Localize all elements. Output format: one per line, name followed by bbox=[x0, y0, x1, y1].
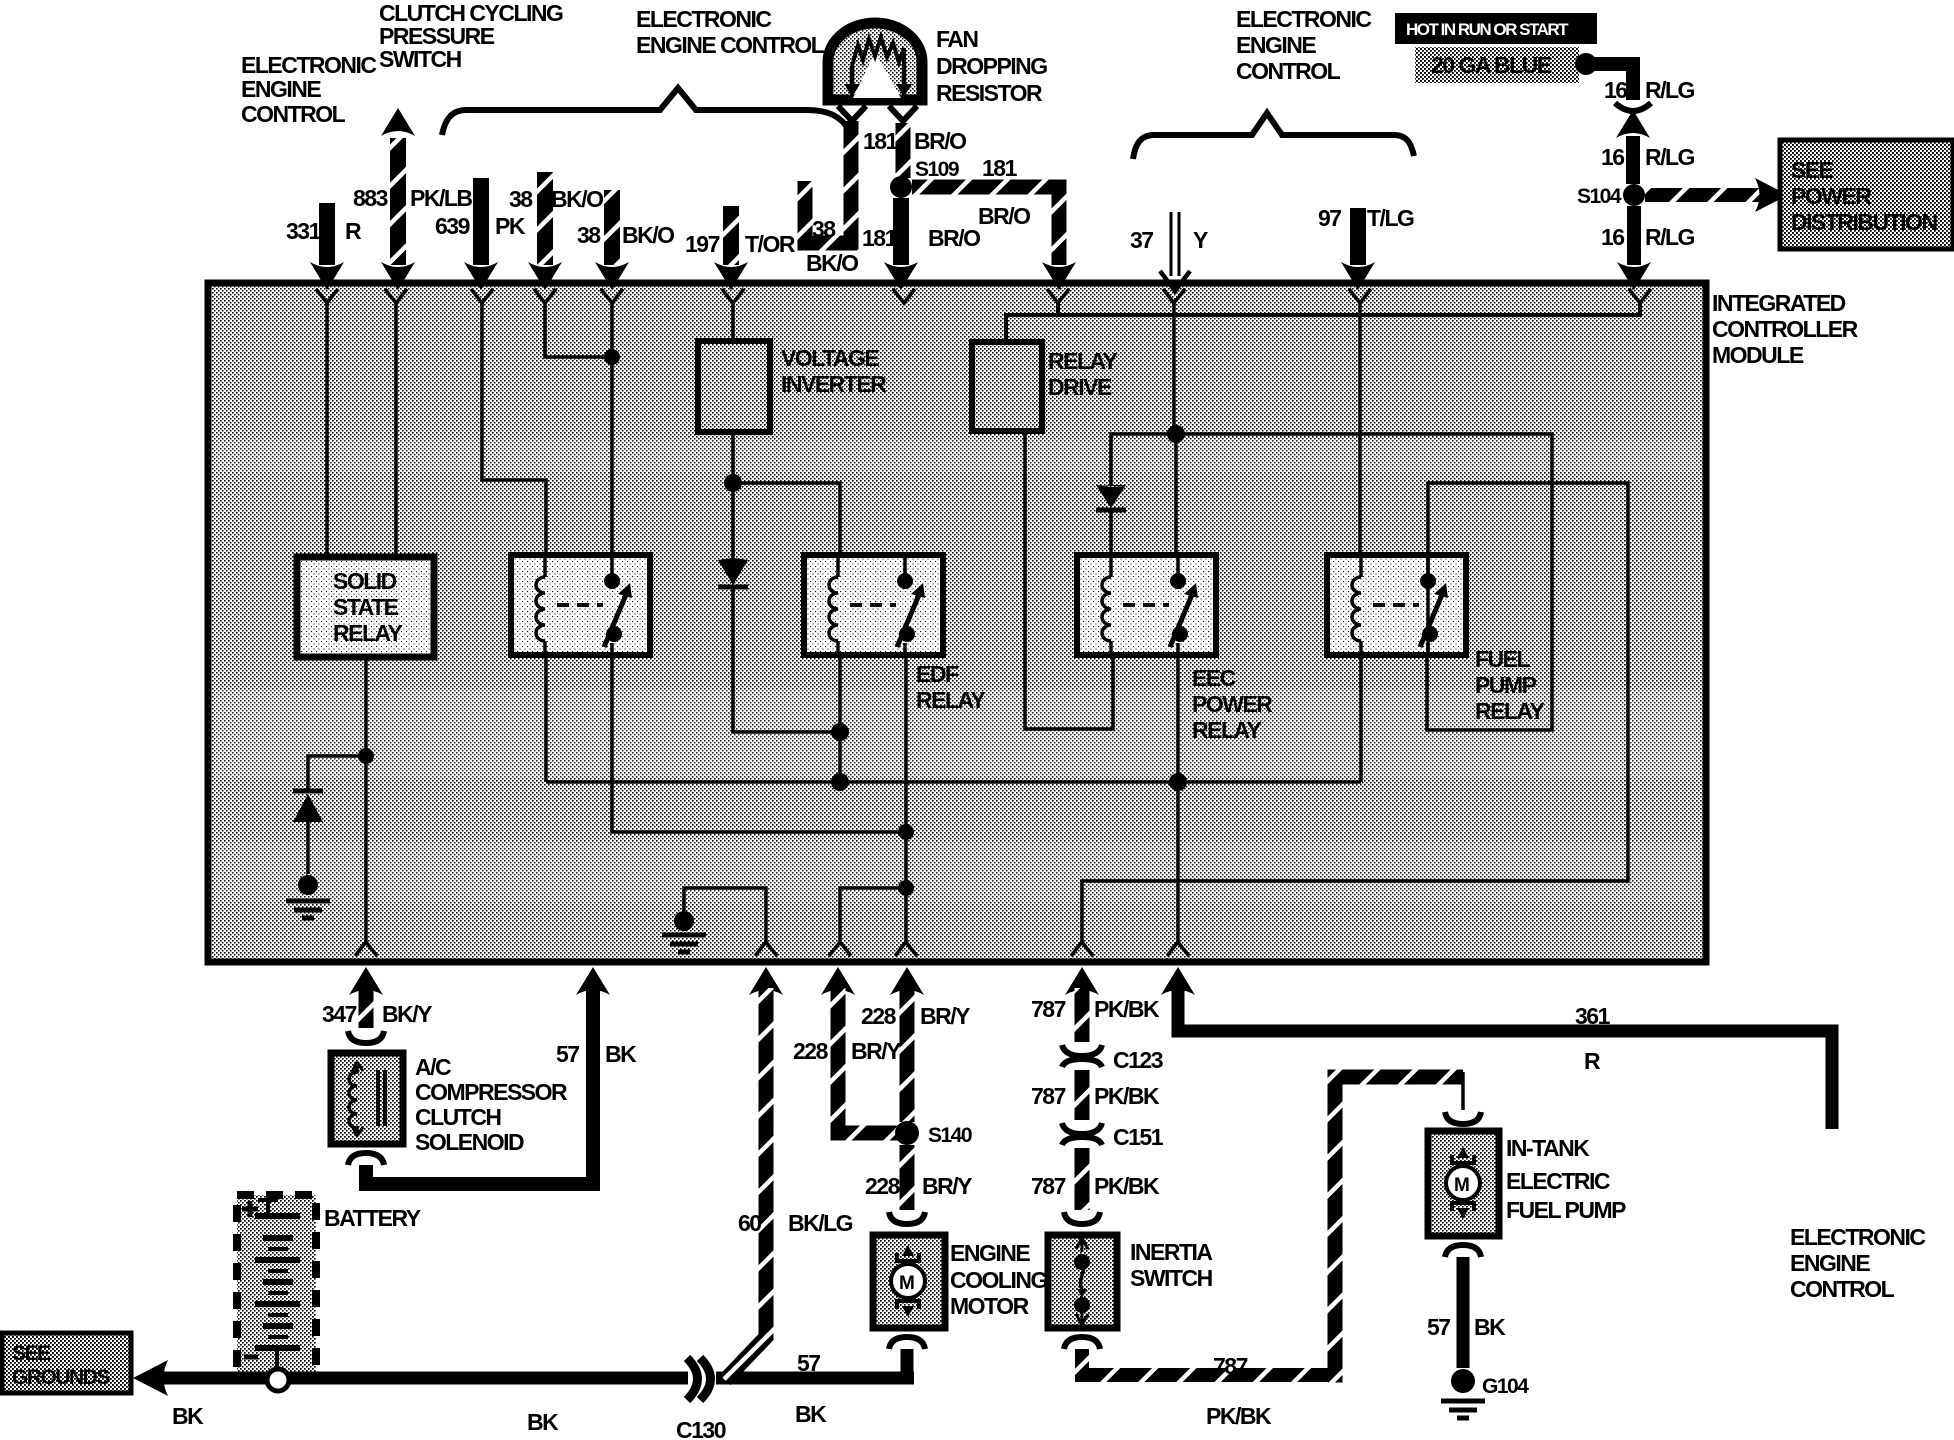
svg-text:SEE: SEE bbox=[12, 1342, 51, 1365]
svg-text:60: 60 bbox=[738, 1210, 761, 1236]
label box HOT IN RUN OR START bbox=[1395, 13, 1597, 44]
svg-text:97: 97 bbox=[1318, 205, 1341, 231]
svg-text:RELAY: RELAY bbox=[1192, 717, 1261, 743]
svg-text:BK: BK bbox=[605, 1041, 637, 1067]
connector cup motor bottom bbox=[889, 1337, 925, 1349]
wire 37 to EEC switch bbox=[1174, 434, 1178, 555]
wire FP switch top to 787 exit bbox=[1082, 483, 1628, 941]
wire 37 Y (double thin) bbox=[1171, 212, 1179, 276]
wire 347 BK/Y bbox=[349, 967, 383, 995]
node 37 branch bbox=[1167, 425, 1185, 443]
svg-text:STATE: STATE bbox=[333, 594, 399, 620]
svg-text:BK/O: BK/O bbox=[806, 250, 858, 276]
svg-text:RELAY: RELAY bbox=[333, 620, 402, 646]
connector cup A/C top bbox=[348, 1031, 384, 1043]
connector C151 bbox=[1062, 1123, 1102, 1145]
svg-text:38: 38 bbox=[577, 222, 601, 248]
svg-text:MODULE: MODULE bbox=[1712, 342, 1804, 368]
svg-text:ENGINE CONTROL: ENGINE CONTROL bbox=[636, 32, 825, 58]
wire internal ground branch bbox=[684, 888, 766, 941]
svg-text:228: 228 bbox=[865, 1173, 901, 1199]
svg-text:16: 16 bbox=[1601, 144, 1624, 170]
wire ssr output bbox=[364, 657, 368, 941]
svg-text:DROPPING: DROPPING bbox=[936, 53, 1047, 79]
svg-text:331: 331 bbox=[286, 218, 322, 244]
svg-text:S109: S109 bbox=[915, 158, 959, 181]
svg-text:FAN: FAN bbox=[936, 26, 978, 52]
wire 181 BR/O S109 down bbox=[893, 198, 909, 265]
svg-text:347: 347 bbox=[322, 1001, 357, 1027]
svg-text:FUEL: FUEL bbox=[1475, 646, 1531, 672]
svg-text:PK/BK: PK/BK bbox=[1206, 1403, 1272, 1429]
svg-text:BR/O: BR/O bbox=[914, 128, 966, 154]
svg-text:BK/LG: BK/LG bbox=[788, 1210, 853, 1236]
svg-text:ELECTRIC: ELECTRIC bbox=[1506, 1168, 1610, 1194]
svg-text:BATTERY: BATTERY bbox=[324, 1205, 421, 1231]
wire FP coil to rail bbox=[1359, 655, 1363, 782]
svg-text:ELECTRONIC: ELECTRONIC bbox=[1236, 6, 1371, 32]
wire 57 BK cooling motor to C130 bbox=[716, 1372, 914, 1385]
node EDF coil rail junction bbox=[831, 773, 849, 791]
wire 228 BR/Y S140 to motor bbox=[900, 1145, 915, 1210]
wire EEC switch down to exit bbox=[1176, 655, 1180, 941]
wire A/C relay switch down jog bbox=[612, 655, 906, 832]
wire 787 riser to fuel pump bbox=[1328, 1077, 1463, 1375]
svg-text:POWER: POWER bbox=[1192, 691, 1273, 717]
svg-text:SWITCH: SWITCH bbox=[1130, 1265, 1213, 1291]
wire 883 entry to solid state relay bbox=[394, 303, 398, 557]
svg-text:PK/BK: PK/BK bbox=[1094, 996, 1160, 1022]
node G104 bbox=[1451, 1369, 1475, 1393]
wire 228 BR/Y (right) bbox=[890, 967, 924, 995]
label box SEE GROUNDS bbox=[2, 1333, 131, 1393]
svg-text:Y: Y bbox=[1193, 227, 1208, 253]
integrated controller module box bbox=[208, 283, 1706, 962]
svg-text:G104: G104 bbox=[1482, 1375, 1529, 1398]
svg-text:C130: C130 bbox=[676, 1417, 726, 1440]
svg-text:SOLID: SOLID bbox=[333, 568, 397, 594]
svg-text:BK/O: BK/O bbox=[551, 186, 603, 212]
svg-text:M: M bbox=[899, 1273, 914, 1294]
svg-text:POWER: POWER bbox=[1791, 183, 1872, 209]
connector cup fuel pump top bbox=[1445, 1112, 1481, 1124]
wire 97 entry to FP coil bbox=[1358, 303, 1362, 555]
wire to EDF clamp diode bbox=[731, 483, 735, 558]
svg-text:R/LG: R/LG bbox=[1645, 144, 1695, 170]
connector C130 bbox=[687, 1358, 698, 1400]
wire 787 PK/BK inertia out bbox=[1082, 1349, 1335, 1375]
node ssr branch bbox=[358, 748, 374, 764]
wire BK battery to grounds bbox=[163, 1372, 688, 1385]
wire 197 entry to voltage inverter bbox=[731, 303, 735, 341]
svg-text:EDF: EDF bbox=[916, 661, 959, 687]
wire hot feed to connector bbox=[1586, 64, 1633, 100]
wire EDF coil to rail bbox=[838, 655, 842, 782]
svg-text:BR/O: BR/O bbox=[928, 225, 980, 251]
svg-text:T/LG: T/LG bbox=[1367, 205, 1414, 231]
svg-text:ELECTRONIC: ELECTRONIC bbox=[636, 6, 771, 32]
svg-text:INVERTER: INVERTER bbox=[781, 371, 887, 397]
svg-text:BK/Y: BK/Y bbox=[382, 1001, 432, 1027]
node inverter branch bbox=[724, 474, 742, 492]
svg-text:787: 787 bbox=[1213, 1353, 1248, 1379]
diode CR2 (EDF coil clamp) bbox=[718, 558, 748, 560]
connector cup inertia top bbox=[1064, 1212, 1100, 1224]
svg-text:BR/O: BR/O bbox=[978, 203, 1030, 229]
svg-text:R/LG: R/LG bbox=[1645, 77, 1695, 103]
connector cup inertia bottom bbox=[1064, 1337, 1100, 1349]
svg-text:787: 787 bbox=[1031, 1173, 1066, 1199]
node battery terminal bbox=[267, 1369, 289, 1391]
battery bbox=[237, 1195, 316, 1376]
svg-text:16: 16 bbox=[1604, 77, 1627, 103]
svg-text:RELAY: RELAY bbox=[1475, 698, 1544, 724]
svg-text:T/OR: T/OR bbox=[745, 231, 796, 257]
wire A/C relay coil to common rail bbox=[544, 655, 548, 782]
node EDF switch exit junction bbox=[898, 880, 914, 896]
svg-text:RESISTOR: RESISTOR bbox=[936, 80, 1043, 106]
wire S104 to power distribution bbox=[1645, 188, 1760, 202]
svg-text:883: 883 bbox=[353, 185, 388, 211]
svg-text:ENGINE: ENGINE bbox=[241, 76, 321, 102]
wire to EDF coil top bbox=[733, 483, 840, 555]
svg-text:DRIVE: DRIVE bbox=[1048, 374, 1112, 400]
wire 787 PK/BK lower bbox=[1075, 1148, 1090, 1210]
wire 228 BR/Y (left) bbox=[821, 967, 855, 995]
svg-text:CLUTCH: CLUTCH bbox=[415, 1104, 501, 1130]
relay K1 (A/C clutch relay) bbox=[511, 555, 650, 655]
svg-text:PUMP: PUMP bbox=[1475, 672, 1537, 698]
svg-text:PK/BK: PK/BK bbox=[1094, 1083, 1160, 1109]
svg-text:181: 181 bbox=[863, 128, 899, 154]
node S140 bbox=[895, 1121, 919, 1145]
node EDF coil diode junction bbox=[831, 723, 849, 741]
svg-text:CONTROLLER: CONTROLLER bbox=[1712, 316, 1859, 342]
node 38 junction bbox=[604, 349, 620, 365]
wire relay drive to EEC coil bbox=[1025, 431, 1113, 729]
connector cup motor top bbox=[889, 1212, 925, 1224]
svg-text:SWITCH: SWITCH bbox=[379, 46, 462, 72]
wire 57 BK solenoid loop bbox=[366, 985, 593, 1184]
svg-text:BR/Y: BR/Y bbox=[851, 1038, 901, 1064]
wire 639 entry jog to A/C relay coil bbox=[482, 303, 546, 555]
wire 37 branch right long bbox=[1176, 434, 1552, 730]
relay K3 EEC power relay bbox=[1077, 555, 1216, 655]
svg-text:228: 228 bbox=[793, 1038, 829, 1064]
wire 331 entry to solid state relay bbox=[325, 303, 329, 557]
label box SEE POWER DISTRIBUTION bbox=[1780, 140, 1953, 249]
svg-text:PK/BK: PK/BK bbox=[1094, 1173, 1160, 1199]
wire 57 BK fuel pump ground bbox=[1457, 1257, 1470, 1368]
wire 38 entry to A/C relay switch bbox=[610, 303, 614, 555]
svg-text:BK/O: BK/O bbox=[622, 222, 674, 248]
fan dropping resistor dome bbox=[828, 23, 922, 100]
engine cooling motor bbox=[873, 1235, 945, 1328]
wire 37 branch left to diode bbox=[1111, 434, 1176, 485]
relay K2 EDF relay bbox=[804, 555, 943, 655]
node internal ground dot bbox=[674, 911, 694, 931]
node ground dot bbox=[298, 875, 318, 895]
ground symbol (left) bbox=[286, 901, 330, 918]
svg-text:38: 38 bbox=[509, 186, 533, 212]
wire 16 R/LG S104 down bbox=[1627, 206, 1641, 265]
svg-text:16: 16 bbox=[1601, 224, 1624, 250]
svg-text:181: 181 bbox=[862, 225, 898, 251]
svg-text:HOT IN RUN OR START: HOT IN RUN OR START bbox=[1406, 20, 1569, 39]
svg-text:PK/LB: PK/LB bbox=[410, 185, 472, 211]
wire EDF switch lower run bbox=[904, 655, 908, 888]
svg-text:PK: PK bbox=[495, 213, 526, 239]
svg-text:BK: BK bbox=[527, 1409, 559, 1435]
svg-text:57: 57 bbox=[1427, 1314, 1450, 1340]
wire inverter output bbox=[731, 432, 735, 483]
svg-text:EEC: EEC bbox=[1192, 665, 1236, 691]
wire 197 T/OR bbox=[723, 206, 739, 265]
svg-text:ENGINE: ENGINE bbox=[1236, 32, 1316, 58]
svg-text:R: R bbox=[345, 218, 362, 244]
svg-text:BK: BK bbox=[172, 1403, 204, 1429]
wire stub 181 entry to bus bbox=[1056, 303, 1060, 317]
svg-text:BK: BK bbox=[1474, 1314, 1506, 1340]
connector cup fuel pump bottom bbox=[1445, 1245, 1481, 1257]
node S109 bbox=[890, 176, 912, 198]
svg-text:IN-TANK: IN-TANK bbox=[1506, 1135, 1590, 1161]
svg-text:197: 197 bbox=[685, 231, 720, 257]
brace mid EEC bbox=[442, 88, 851, 135]
svg-text:787: 787 bbox=[1031, 996, 1066, 1022]
wire bus 16R/LG to relay drive bbox=[1006, 303, 1640, 342]
svg-text:INTEGRATED: INTEGRATED bbox=[1712, 290, 1846, 316]
wire 60 BK/LG bbox=[749, 967, 783, 995]
svg-text:S140: S140 bbox=[928, 1124, 972, 1147]
wire common rail bbox=[546, 780, 1361, 784]
solid state relay U1 bbox=[297, 557, 434, 657]
module scan streaks bbox=[215, 440, 1699, 472]
voltage inverter box bbox=[698, 341, 770, 432]
svg-text:ELECTRONIC: ELECTRONIC bbox=[241, 52, 376, 78]
wire 38 BK/O (first) bbox=[537, 172, 553, 265]
svg-text:R/LG: R/LG bbox=[1645, 224, 1695, 250]
svg-text:FUEL PUMP: FUEL PUMP bbox=[1506, 1197, 1626, 1223]
svg-text:VOLTAGE: VOLTAGE bbox=[781, 345, 879, 371]
svg-text:C151: C151 bbox=[1113, 1124, 1164, 1150]
svg-text:57: 57 bbox=[556, 1041, 579, 1067]
connector cup A/C bottom bbox=[348, 1153, 384, 1165]
svg-text:GROUNDS: GROUNDS bbox=[12, 1366, 110, 1389]
wire 37 entry down bbox=[1172, 303, 1176, 434]
inertia switch bbox=[1048, 1235, 1117, 1328]
svg-text:639: 639 bbox=[435, 213, 470, 239]
wire 787 PK/BK mid bbox=[1075, 1070, 1090, 1120]
node S104 bbox=[1623, 184, 1645, 206]
relay K4 fuel pump relay bbox=[1327, 555, 1466, 655]
svg-text:37: 37 bbox=[1130, 227, 1153, 253]
pin chevrons bottom border bbox=[355, 942, 377, 956]
svg-text:SEE: SEE bbox=[1791, 157, 1834, 183]
relay drive box bbox=[972, 342, 1042, 431]
svg-text:CONTROL: CONTROL bbox=[1790, 1276, 1895, 1302]
node hot feed dot bbox=[1575, 53, 1597, 75]
svg-text:ELECTRONIC: ELECTRONIC bbox=[1790, 1224, 1925, 1250]
label box 20 GA BLUE bbox=[1415, 47, 1579, 83]
svg-text:CONTROL: CONTROL bbox=[1236, 58, 1341, 84]
diode CR3 (EEC coil feed) bbox=[1096, 485, 1126, 508]
node EEC switch rail junction bbox=[1169, 773, 1187, 791]
svg-text:R: R bbox=[1584, 1048, 1601, 1074]
svg-text:RELAY: RELAY bbox=[916, 687, 985, 713]
connector cup dome left bbox=[838, 106, 866, 121]
svg-text:CONTROL: CONTROL bbox=[241, 101, 346, 127]
pin chevrons top border bbox=[316, 289, 338, 303]
svg-text:A/C: A/C bbox=[415, 1054, 451, 1080]
connector cup dome right bbox=[889, 106, 917, 121]
connector C123 bbox=[1062, 1045, 1102, 1067]
svg-text:M: M bbox=[1454, 1175, 1469, 1196]
wire 639 PK bbox=[473, 178, 489, 265]
svg-text:57: 57 bbox=[797, 1350, 820, 1376]
wire 97 T/LG bbox=[1350, 208, 1366, 265]
node EDF switch / A/C switch junction bbox=[898, 824, 914, 840]
svg-text:COMPRESSOR: COMPRESSOR bbox=[415, 1079, 568, 1105]
svg-text:ENGINE: ENGINE bbox=[950, 1240, 1030, 1266]
wire EDF switch to 228 exits bbox=[840, 888, 906, 941]
svg-text:38: 38 bbox=[812, 216, 836, 242]
svg-text:MOTOR: MOTOR bbox=[950, 1293, 1030, 1319]
svg-text:SOLENOID: SOLENOID bbox=[415, 1129, 524, 1155]
svg-text:RELAY: RELAY bbox=[1048, 348, 1117, 374]
svg-text:ENGINE: ENGINE bbox=[1790, 1250, 1870, 1276]
svg-text:20 GA BLUE: 20 GA BLUE bbox=[1431, 52, 1552, 78]
diode CR1 (to ground, cathode up) bbox=[293, 789, 323, 794]
wire 883 PK/LB bbox=[390, 138, 406, 265]
svg-text:361: 361 bbox=[1575, 1003, 1611, 1029]
wire 38 BK/O (second) bbox=[604, 190, 620, 265]
wire 38 entry jog to switch line bbox=[545, 303, 612, 357]
in-tank electric fuel pump bbox=[1428, 1131, 1499, 1236]
svg-text:BR/Y: BR/Y bbox=[922, 1173, 972, 1199]
wire 181 BR/O S109 branch right bbox=[912, 187, 1059, 265]
brace right EEC bbox=[1133, 113, 1414, 159]
wire to clamp diode bbox=[308, 756, 366, 791]
wire 331 R bbox=[319, 203, 335, 265]
svg-text:INERTIA: INERTIA bbox=[1130, 1239, 1212, 1265]
svg-text:DISTRIBUTION: DISTRIBUTION bbox=[1791, 209, 1937, 235]
wire 787 PK/BK top bbox=[1065, 967, 1099, 995]
svg-text:COOLING: COOLING bbox=[950, 1267, 1047, 1293]
wire motor to BK bbox=[901, 1349, 914, 1372]
svg-text:BR/Y: BR/Y bbox=[920, 1003, 970, 1029]
svg-text:C123: C123 bbox=[1113, 1047, 1163, 1073]
svg-text:228: 228 bbox=[861, 1003, 897, 1029]
wire 38 BK/O U-loop to dome bbox=[805, 121, 851, 243]
connector in 16 R/LG bbox=[1615, 103, 1651, 111]
wire 181 BR/O dome to S109 bbox=[896, 123, 911, 178]
svg-text:BK: BK bbox=[795, 1401, 827, 1427]
wire 16 R/LG to S104 bbox=[1626, 136, 1640, 184]
A/C compressor clutch solenoid bbox=[331, 1053, 403, 1144]
svg-text:181: 181 bbox=[982, 155, 1018, 181]
svg-text:S104: S104 bbox=[1577, 185, 1622, 208]
ground symbol G104 bbox=[1441, 1401, 1485, 1418]
svg-text:787: 787 bbox=[1031, 1083, 1066, 1109]
ground symbol (center) bbox=[662, 935, 706, 952]
wire 361 R bbox=[1161, 967, 1195, 995]
